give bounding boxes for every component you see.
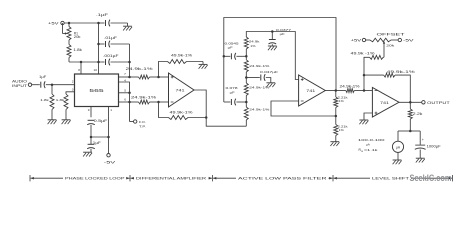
svg-text:24.9k-1%: 24.9k-1% — [131, 96, 156, 100]
svg-text:10: 10 — [94, 68, 98, 72]
wire opamp C output — [399, 101, 421, 103]
capacitor .1uF bypass — [96, 13, 128, 26]
section divider phase locked loop — [30, 175, 130, 181]
svg-text:5: 5 — [124, 89, 126, 93]
label meter value — [358, 138, 385, 153]
ground diff amp ref — [199, 62, 208, 69]
resistor 24.9k-1% diff input A — [126, 67, 159, 79]
node -5V offset terminal — [398, 38, 415, 42]
junction inv input — [157, 101, 160, 104]
capacitor 0.0377uF to ground — [269, 28, 292, 46]
capacitor 0.0545uF — [224, 41, 247, 59]
resistor 2.21k 1% lower — [334, 116, 348, 142]
svg-text:PHASE LOCKED LOOP: PHASE LOCKED LOOP — [65, 177, 126, 181]
ground input bias B — [62, 120, 71, 124]
junction feedback tap — [205, 116, 208, 119]
resistor 24.9k-1% level shift input — [336, 85, 364, 93]
ground 0.047uF — [266, 83, 275, 87]
wire to pin 2 — [52, 80, 75, 85]
svg-text:1%: 1% — [250, 44, 255, 48]
potentiometer 20k offset — [366, 38, 398, 57]
wire pin1 junction — [91, 136, 110, 139]
svg-text:INPUT: INPUT — [12, 84, 27, 88]
svg-text:OUTPUT: OUTPUT — [427, 101, 450, 105]
svg-text:1%: 1% — [339, 128, 344, 132]
node +5V supply terminal — [48, 21, 64, 25]
svg-text:3: 3 — [72, 88, 74, 92]
svg-text:µF: µF — [228, 46, 233, 50]
resistor ladder 24.9k 1% R-D — [244, 32, 272, 57]
svg-text:565: 565 — [89, 88, 104, 93]
svg-text:2: 2 — [72, 80, 74, 84]
svg-text:1.8k: 1.8k — [73, 48, 82, 52]
node AUDIO INPUT terminal — [12, 80, 32, 88]
label OFFSET — [377, 33, 405, 37]
junction pin 7 — [128, 76, 131, 79]
op-amp U4 741 level shifter — [372, 88, 399, 118]
svg-text:T.P.: T.P. — [139, 125, 146, 129]
op-amp U2 741 differential amplifier — [169, 73, 195, 107]
svg-text:1%: 1% — [339, 99, 344, 103]
wire to opamp A + — [159, 76, 169, 78]
resistor 49.9k-1% feedback — [159, 102, 207, 120]
resistor 24.9k-1% diff input B — [130, 96, 159, 104]
svg-text:9: 9 — [88, 108, 90, 112]
svg-text:0.5µF: 0.5µF — [94, 119, 108, 123]
potentiometer R1 20k — [63, 23, 81, 40]
junction .01uF left — [97, 43, 100, 46]
junction pin 10 — [97, 61, 100, 64]
svg-text:+5V: +5V — [351, 39, 363, 43]
ground input bias A — [48, 120, 57, 124]
ground divider — [330, 142, 339, 146]
section divider level shift — [334, 175, 453, 181]
pin 5 — [119, 89, 131, 94]
capacitor .01uF — [99, 36, 130, 47]
svg-text:M: M — [361, 151, 363, 153]
wire + input to ground — [364, 113, 372, 120]
svg-text:µF: µF — [280, 32, 285, 36]
svg-text:LEVEL SHIFT: LEVEL SHIFT — [372, 177, 410, 181]
node F.O. test point — [130, 120, 147, 129]
svg-text:+: + — [422, 138, 424, 142]
svg-text:100-0-100: 100-0-100 — [358, 138, 385, 142]
wire pin 3 — [66, 88, 75, 95]
svg-text:20k: 20k — [386, 44, 395, 48]
ground 0.0377uF — [268, 46, 277, 50]
svg-text:741: 741 — [306, 89, 315, 93]
svg-text:1.8k: 1.8k — [40, 98, 49, 102]
svg-text:1000µF: 1000µF — [427, 145, 441, 149]
resistor ladder 24.9k 1% R-C — [244, 56, 269, 77]
wire bias line — [69, 61, 102, 63]
capacitor 0.078uF — [224, 86, 247, 105]
svg-text:F.O.: F.O. — [139, 120, 146, 124]
wire vertical inv — [364, 75, 372, 90]
junction input divider — [51, 83, 54, 86]
svg-text:7: 7 — [124, 72, 126, 76]
svg-text:OFFSET: OFFSET — [377, 33, 405, 37]
svg-text:24.9k-1%: 24.9k-1% — [126, 67, 153, 71]
junction caps rail — [97, 22, 100, 25]
svg-text:µF: µF — [230, 90, 235, 94]
resistor ladder 24.9k 1% R-B — [244, 78, 269, 103]
watermark SeekIC.com — [410, 173, 452, 183]
junction inv input op C — [363, 89, 366, 92]
svg-text:49.9k-1%: 49.9k-1% — [387, 70, 415, 74]
pin 6 — [119, 97, 130, 102]
svg-text:SeekIC.com: SeekIC.com — [410, 173, 452, 183]
ground for 1uF — [83, 152, 92, 156]
op-amp U3 741 low pass filter — [299, 75, 326, 106]
wire opamp A output — [194, 90, 246, 126]
capacitor 0.5uF loop filter — [87, 119, 107, 137]
svg-text:1µF: 1µF — [39, 75, 46, 79]
resistor 2.2k output — [408, 102, 423, 131]
wire feedback rail top — [224, 18, 336, 103]
junction divider tap — [335, 115, 338, 118]
svg-text:.1µF: .1µF — [96, 13, 108, 17]
svg-text:+5V: +5V — [48, 22, 60, 26]
svg-text:6: 6 — [124, 97, 126, 101]
junction offset/feedback — [363, 74, 366, 77]
IC U1 565 PLL — [75, 74, 119, 107]
resistor 49.9k-1% feedback level shift — [364, 70, 415, 102]
svg-text:20k: 20k — [74, 35, 81, 39]
svg-text:8: 8 — [78, 68, 80, 72]
svg-text:=1.1k: =1.1k — [364, 148, 378, 152]
svg-text:2.2k: 2.2k — [413, 112, 423, 116]
wire opamp B output — [325, 90, 336, 92]
svg-text:49.9k -1%: 49.9k -1% — [351, 51, 375, 55]
junction ladder J3 — [245, 101, 248, 104]
svg-text:DIFFERENTIAL AMPLIFIER: DIFFERENTIAL AMPLIFIER — [136, 177, 207, 181]
svg-text:ACTIVE LOW PASS FILTER: ACTIVE LOW PASS FILTER — [238, 177, 327, 181]
capacitor 1uF to ground — [87, 137, 101, 152]
svg-text:0.078: 0.078 — [226, 86, 238, 90]
meter M1 100-0-100 uA — [392, 141, 403, 152]
junction .001uF right — [128, 61, 131, 64]
section divider differential amplifier — [131, 175, 213, 181]
svg-text:.001µF: .001µF — [103, 54, 119, 58]
capacitor 0.047uF to ground — [246, 70, 278, 83]
junction output — [409, 101, 412, 104]
svg-text:1: 1 — [110, 108, 112, 112]
wire vertical caps left — [98, 23, 100, 62]
junction ladder J2 — [245, 76, 248, 79]
resistor 2.21k 1% upper — [334, 91, 348, 117]
resistor 49.9k-1% to ground — [159, 54, 204, 77]
wire vertical to pin 7 — [129, 44, 131, 77]
pin 10 — [94, 62, 99, 74]
wire to opamp B + — [272, 32, 298, 80]
pin 9 — [88, 107, 91, 118]
junction pin 8 — [80, 61, 83, 64]
svg-text:49.9k-1%: 49.9k-1% — [170, 110, 193, 114]
svg-text:-5V: -5V — [403, 39, 415, 43]
capacitor 1000uF output — [410, 131, 440, 158]
ground 1000uF — [416, 158, 425, 162]
svg-text:.01µF: .01µF — [104, 36, 117, 40]
junction 0.0545 left — [223, 55, 226, 58]
wire input — [32, 84, 40, 86]
ground for .1uF — [123, 23, 132, 31]
junction 0.0377 top — [271, 30, 274, 33]
wire meter branch — [398, 131, 410, 141]
junction opamp B output — [335, 89, 338, 92]
resistor 1.8k input bias A — [40, 85, 54, 120]
capacitor .001uF — [102, 54, 130, 66]
node +5V offset terminal — [351, 38, 366, 42]
svg-text:1µF: 1µF — [93, 141, 101, 145]
resistor ladder 24.9k 1% R-A — [244, 102, 269, 126]
wire to opamp A - — [159, 101, 169, 103]
junction pin1/cap — [90, 136, 93, 139]
section divider active low pass filter — [213, 175, 333, 181]
svg-text:1.8k: 1.8k — [56, 98, 65, 102]
pin 8 — [78, 62, 81, 74]
pin 7 — [119, 72, 130, 77]
svg-text:24.9k-1%: 24.9k-1% — [249, 64, 269, 68]
svg-text:741: 741 — [176, 89, 185, 93]
svg-text:741: 741 — [380, 101, 389, 105]
node OUTPUT terminal — [422, 101, 450, 105]
svg-text:-5V: -5V — [104, 161, 118, 165]
junction ladder J1 — [245, 55, 248, 58]
resistor 49.9k-1% offset — [351, 51, 385, 75]
junction pot top — [68, 22, 71, 25]
node -5V supply terminal — [104, 154, 118, 165]
svg-text:49.9k-1%: 49.9k-1% — [171, 54, 192, 58]
pin 1 — [109, 107, 113, 154]
junction noninv input — [157, 76, 160, 79]
ground meter — [393, 160, 402, 164]
svg-text:0.047µF: 0.047µF — [260, 70, 278, 74]
resistor 1.8k input bias B — [56, 94, 68, 120]
wire opamp B inv feedback loop — [271, 101, 336, 116]
pin 4 — [119, 78, 130, 121]
ground op C + — [359, 120, 368, 124]
svg-text:24.9k-1%: 24.9k-1% — [340, 85, 360, 89]
svg-text:24.9k-1%: 24.9k-1% — [249, 107, 269, 111]
junction meter node — [409, 130, 412, 133]
wire meter to ground — [397, 152, 399, 159]
junction pin 6 — [128, 101, 131, 104]
wire +5V rail — [64, 22, 98, 24]
resistor 1.8k (VCO timing) — [67, 40, 82, 62]
capacitor 1uF input coupling — [39, 75, 52, 88]
